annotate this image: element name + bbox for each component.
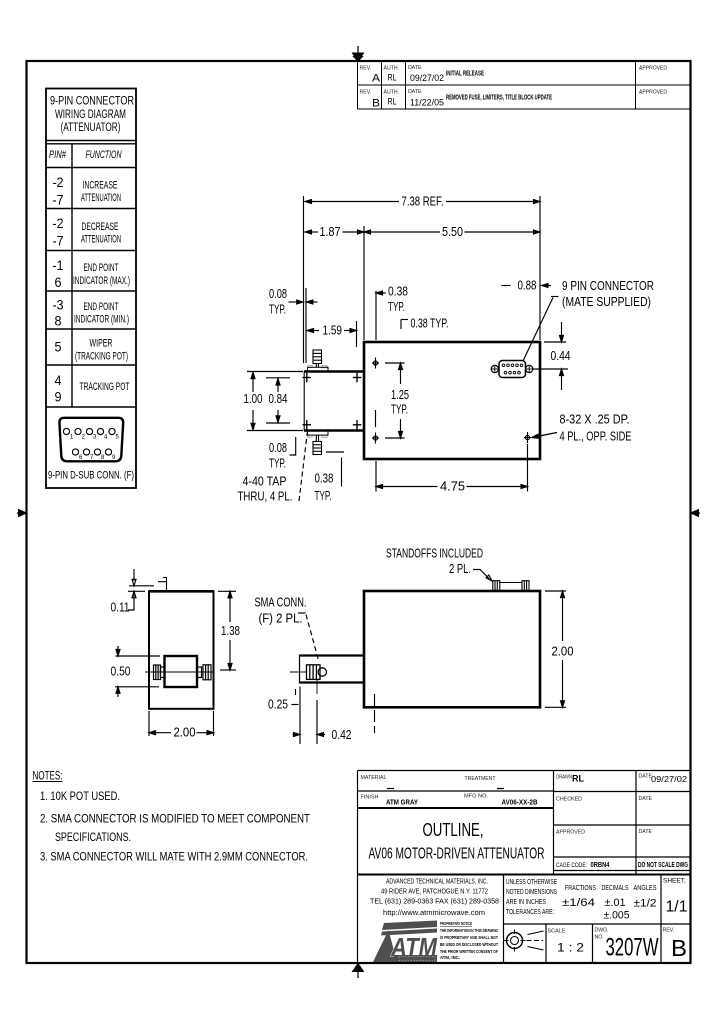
front view: SMA arm (300, 655, 365, 684)
svg-text:±1/64: ±1/64 (562, 897, 595, 909)
svg-text:7.38 REF.: 7.38 REF. (402, 195, 444, 209)
svg-text:MATERIAL: MATERIAL (361, 775, 387, 781)
ATM logo (373, 921, 438, 963)
front view: standoffs (493, 581, 529, 591)
svg-text:(MATE SUPPLIED): (MATE SUPPLIED) (562, 295, 651, 309)
svg-text:REV.: REV. (360, 66, 372, 72)
svg-text:RL: RL (388, 97, 397, 107)
svg-text:-7: -7 (53, 192, 64, 208)
svg-text:TYP.: TYP. (269, 303, 286, 317)
side view: body outline (145, 578, 214, 709)
row: wiper (55, 338, 129, 363)
svg-text:ANGLES: ANGLES (634, 885, 657, 892)
svg-text:9-PIN D-SUB CONN. (F): 9-PIN D-SUB CONN. (F) (48, 470, 134, 482)
svg-text:TREATMENT: TREATMENT (465, 776, 497, 782)
svg-text:DECREASE: DECREASE (82, 221, 119, 233)
svg-text:FRACTIONS: FRACTIONS (565, 885, 596, 892)
svg-text:FINISH: FINISH (361, 795, 379, 801)
top view: attenuator body outline (304, 342, 540, 459)
wiring table title (50, 96, 134, 135)
svg-text:2.00: 2.00 (174, 726, 196, 740)
svg-text:APPROVED: APPROVED (556, 830, 585, 836)
svg-text:APPROVED: APPROVED (639, 66, 667, 72)
svg-text:2.00: 2.00 (552, 645, 574, 659)
svg-text:1. 10K POT USED.: 1. 10K POT USED. (40, 791, 120, 803)
svg-text:(F) 2 PL.: (F) 2 PL. (259, 612, 303, 626)
svg-text:2 PL.: 2 PL. (449, 562, 471, 576)
svg-text:-1: -1 (53, 257, 64, 273)
row: end point indicator max (53, 257, 131, 290)
dimension extension lines (304, 196, 541, 363)
svg-text:TYP.: TYP. (388, 300, 405, 314)
svg-text:THE PRIOR WRITTEN CONSENT OF: THE PRIOR WRITTEN CONSENT OF (440, 949, 498, 954)
svg-text:PIN#: PIN# (49, 149, 67, 161)
svg-text:TYP.: TYP. (315, 489, 332, 503)
side view dimension 0.50 (115, 646, 160, 697)
front view projection tick (374, 694, 376, 733)
svg-text:0.08: 0.08 (269, 441, 287, 455)
dimension 1.59 (307, 329, 357, 333)
row: end point indicator min (53, 297, 130, 329)
svg-text:NO.: NO. (595, 935, 604, 941)
svg-text:0.38: 0.38 (315, 472, 334, 486)
svg-text:END POINT: END POINT (84, 301, 119, 313)
side view: attenuator module (165, 656, 198, 687)
svg-text:2. SMA CONNECTOR IS MODIFIED T: 2. SMA CONNECTOR IS MODIFIED TO MEET COM… (40, 814, 310, 826)
svg-text:A: A (372, 73, 381, 85)
notes (33, 771, 311, 864)
drawn / checked / approved column (556, 774, 688, 870)
svg-text:0.88: 0.88 (518, 279, 537, 293)
row: tracking pot (55, 372, 130, 405)
top view: bottom SMA mounting plate (308, 431, 329, 436)
svg-text:-3: -3 (53, 297, 64, 313)
svg-text:NOTES:: NOTES: (33, 771, 63, 783)
svg-text:±.01: ±.01 (605, 897, 626, 909)
svg-text:INITIAL RELEASE: INITIAL RELEASE (446, 71, 484, 78)
svg-text:IS PROPRIETARY AND SHALL NOT: IS PROPRIETARY AND SHALL NOT (440, 935, 498, 940)
svg-text:ATM GRAY: ATM GRAY (386, 798, 418, 807)
svg-text:0RBN4: 0RBN4 (591, 862, 610, 869)
svg-text:0.84: 0.84 (269, 392, 288, 406)
svg-text:END POINT: END POINT (84, 262, 119, 274)
side view dimension 0.11 (128, 569, 154, 610)
svg-text:3207W: 3207W (606, 934, 659, 962)
material / treatment row (361, 775, 505, 789)
dimension 0.38 TYP. (hole row offset) (401, 320, 408, 330)
svg-text:DATE: DATE (639, 796, 653, 802)
d-sub connector face drawing (59, 418, 123, 462)
svg-text:8-32 X .25 DP.: 8-32 X .25 DP. (560, 413, 630, 427)
svg-text:INCREASE: INCREASE (83, 180, 118, 192)
dimension 0.38 TYP. (bottom SMA) (326, 452, 344, 487)
front view dimension 0.42 (293, 700, 326, 744)
svg-text:8: 8 (55, 313, 62, 329)
front view: body outline (290, 581, 540, 708)
svg-text:APPROVED: APPROVED (639, 90, 667, 96)
svg-text:ATM, INC.: ATM, INC. (440, 955, 460, 960)
title block grid (358, 771, 691, 964)
svg-text:(ATTENUATOR): (ATTENUATOR) (61, 122, 121, 134)
svg-text:4: 4 (55, 372, 62, 388)
svg-text:UNLESS OTHERWISE: UNLESS OTHERWISE (506, 879, 557, 886)
company address block (370, 877, 499, 918)
svg-text:MFG NO.: MFG NO. (464, 794, 488, 800)
svg-text:AUTH.: AUTH. (384, 90, 400, 96)
dimension 1.25 TYP. (376, 363, 405, 438)
svg-text:SCALE: SCALE (548, 929, 567, 935)
front view dimension 2.00 (545, 591, 566, 707)
svg-text:B: B (372, 98, 380, 110)
svg-text:NOTED DIMENSIONS: NOTED DIMENSIONS (506, 889, 557, 896)
top view: bottom SMA connector (313, 435, 322, 454)
svg-text:OUTLINE,: OUTLINE, (423, 819, 484, 840)
9 pin d-sub connector on body (491, 361, 533, 378)
top view: top SMA mounting plate (308, 367, 329, 371)
top view: top SMA connector (313, 350, 322, 367)
svg-text:RL: RL (572, 774, 584, 785)
svg-text:09/27/02: 09/27/02 (651, 774, 687, 784)
svg-text:1.38: 1.38 (221, 624, 240, 638)
right center alignment arrow (691, 510, 701, 517)
svg-text:DECIMALS: DECIMALS (602, 885, 629, 892)
svg-text:CAGE CODE:: CAGE CODE: (556, 862, 587, 869)
svg-text:09/27/02: 09/27/02 (410, 73, 444, 83)
svg-text:1/1: 1/1 (666, 899, 688, 916)
svg-text:0.11: 0.11 (111, 601, 130, 615)
tolerance block (506, 879, 657, 916)
front view: SMA connector (side) (307, 665, 327, 680)
svg-text:(TRACKING POT): (TRACKING POT) (75, 351, 128, 363)
wiring table column headers (49, 149, 122, 161)
svg-text:DO NOT SCALE DWG: DO NOT SCALE DWG (638, 862, 688, 869)
bottom center alignment marker (353, 963, 364, 978)
finish / mfg no row (361, 794, 538, 807)
proprietary notice (440, 921, 498, 960)
top center alignment marker (353, 46, 364, 61)
dimension 1.00 / 0.84 (247, 372, 303, 431)
svg-text:5: 5 (55, 339, 62, 355)
dimension 4.75 (376, 444, 528, 492)
dimension 1.87 / 5.50 (305, 230, 540, 234)
svg-text:DATE: DATE (639, 829, 653, 835)
svg-text:1.00: 1.00 (244, 392, 263, 406)
dimension 0.38 TYP. (hole column offset) (376, 291, 386, 295)
svg-text:0.38 TYP.: 0.38 TYP. (411, 317, 449, 331)
row: decrease attenuation (53, 215, 122, 249)
svg-text:ATTENUATION: ATTENUATION (81, 234, 121, 246)
revision table (358, 61, 691, 109)
side view dimension 2.00 (149, 711, 214, 736)
body mounting holes (372, 358, 531, 444)
dimension 7.38 REF. (305, 200, 540, 204)
svg-text:1.87: 1.87 (320, 225, 341, 239)
svg-text:RL: RL (388, 73, 397, 83)
svg-text:6: 6 (55, 274, 62, 290)
svg-text:STANDOFFS INCLUDED: STANDOFFS INCLUDED (386, 547, 483, 561)
svg-text:AV06-XX-2B: AV06-XX-2B (502, 798, 538, 807)
svg-text:PROPRIETARY NOTICE: PROPRIETARY NOTICE (440, 921, 472, 926)
svg-text:TYP.: TYP. (391, 403, 408, 417)
d-sub pin numbers (70, 435, 120, 462)
svg-text:0.38: 0.38 (388, 285, 408, 299)
side view dimension 1.38 (218, 591, 236, 670)
svg-text:REMOVED FUSE, LIMITERS, TITLE: REMOVED FUSE, LIMITERS, TITLE BLOCK UPDA… (446, 95, 552, 102)
svg-text:±1/2: ±1/2 (634, 898, 657, 910)
svg-text:THE INFORMATION IN THIS DRAWIN: THE INFORMATION IN THIS DRAWING (440, 928, 498, 933)
front view dimension 0.25 (292, 687, 301, 745)
svg-text:TOLERANCES ARE:: TOLERANCES ARE: (506, 909, 554, 916)
svg-text:1.59: 1.59 (323, 324, 343, 338)
dimension 0.44 (533, 322, 568, 390)
svg-text:THRU, 4 PL.: THRU, 4 PL. (238, 490, 293, 504)
svg-text:9 PIN CONNECTOR: 9 PIN CONNECTOR (562, 279, 654, 293)
svg-text:http://www.atmmicrowave.com: http://www.atmmicrowave.com (383, 908, 485, 917)
svg-text:WIRING DIAGRAM: WIRING DIAGRAM (55, 109, 126, 121)
top view: motor bracket flange (304, 370, 364, 373)
svg-text:4.75: 4.75 (440, 480, 465, 494)
svg-text:DRAWN: DRAWN (556, 775, 572, 781)
svg-text:9-PIN CONNECTOR: 9-PIN CONNECTOR (50, 96, 134, 108)
svg-text:9: 9 (55, 389, 62, 405)
top view: flange standoff bumps (308, 366, 327, 438)
left center alignment arrow (17, 510, 27, 517)
svg-text:0.25: 0.25 (268, 698, 288, 712)
third angle projection symbol (504, 930, 544, 952)
revision row B (360, 89, 668, 110)
svg-text:ADVANCED TECHNICAL MATERIALS,: ADVANCED TECHNICAL MATERIALS, INC. (386, 877, 488, 886)
svg-text:3. SMA CONNECTOR WILL MATE WIT: 3. SMA CONNECTOR WILL MATE WITH 2.9MM CO… (40, 852, 308, 864)
svg-text:DATE: DATE (408, 89, 422, 95)
svg-text:ARE IN INCHES: ARE IN INCHES (506, 899, 546, 906)
svg-text:±.005: ±.005 (604, 910, 630, 922)
svg-text:REV.: REV. (663, 928, 675, 934)
svg-text:1.25: 1.25 (391, 388, 409, 402)
revision row A (360, 65, 668, 85)
svg-text:B: B (671, 935, 687, 961)
svg-text:TRACKING POT: TRACKING POT (80, 381, 130, 393)
svg-text:49 RIDER AVE, PATCHOGUE N.Y. 1: 49 RIDER AVE, PATCHOGUE N.Y. 11772 (381, 887, 488, 896)
svg-text:SMA CONN.: SMA CONN. (255, 596, 307, 610)
svg-text:4 PL., OPP. SIDE: 4 PL., OPP. SIDE (560, 430, 632, 444)
svg-text:FUNCTION: FUNCTION (86, 149, 122, 161)
svg-text:-2: -2 (53, 215, 64, 231)
svg-text:CHECKED: CHECKED (556, 797, 582, 803)
svg-text:TEL (631) 289-0363 FAX (631): TEL (631) 289-0363 FAX (631) 289-0358 (370, 897, 499, 906)
svg-text:5.50: 5.50 (442, 225, 463, 239)
side view: SMA center line (145, 671, 214, 673)
svg-text:0.08: 0.08 (269, 287, 287, 301)
svg-text:-2: -2 (53, 174, 64, 190)
svg-text:4-40 TAP: 4-40 TAP (243, 475, 287, 489)
svg-text:INDICATOR (MIN.): INDICATOR (MIN.) (74, 314, 129, 326)
svg-text:AUTH.: AUTH. (384, 66, 400, 72)
side view: right SMA connector (197, 665, 211, 680)
dimension 0.88 (502, 284, 552, 288)
row: increase attenuation (53, 174, 122, 208)
svg-text:SPECIFICATIONS.: SPECIFICATIONS. (55, 832, 131, 844)
svg-text:TYP.: TYP. (269, 457, 286, 471)
svg-text:AV06 MOTOR-DRIVEN ATTENUATOR: AV06 MOTOR-DRIVEN ATTENUATOR (369, 846, 545, 863)
svg-text:DATE: DATE (408, 65, 422, 71)
svg-text:INDICATOR (MAX.): INDICATOR (MAX.) (73, 275, 130, 287)
svg-text:0.42: 0.42 (332, 728, 352, 742)
svg-text:BE USED OR DISCLOSED WITHOUT: BE USED OR DISCLOSED WITHOUT (440, 942, 498, 947)
svg-text:0.44: 0.44 (551, 349, 571, 363)
svg-text:-7: -7 (53, 233, 64, 249)
side view: left SMA connector (154, 665, 165, 680)
svg-text:0.50: 0.50 (111, 665, 131, 679)
svg-text:WIPER: WIPER (90, 338, 113, 350)
svg-text:REV.: REV. (360, 90, 372, 96)
9-pin connector wiring table (46, 89, 136, 489)
svg-text:SHEET,: SHEET, (663, 878, 686, 885)
svg-text:11/22/05: 11/22/05 (410, 98, 444, 108)
svg-text:1 : 2: 1 : 2 (557, 943, 584, 955)
side view: standoff on top (158, 578, 167, 592)
svg-text:ATTENUATION: ATTENUATION (81, 192, 121, 204)
4-40 tap holes (flange corner crosses) (303, 373, 362, 430)
